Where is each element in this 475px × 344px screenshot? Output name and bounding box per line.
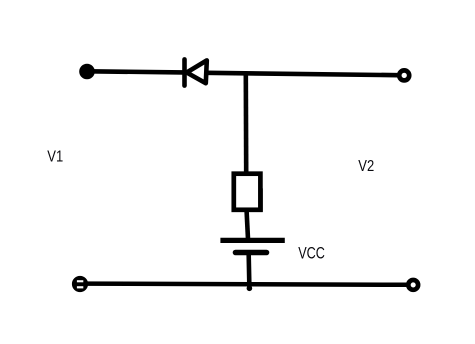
wire top-left segment: [88, 71, 183, 72]
wire vertical from top junction to resistor: [244, 73, 249, 174]
wire resistor to battery: [247, 211, 248, 239]
wire bottom rail: [82, 284, 407, 285]
node terminal bottom-left (dot with slits): [72, 276, 88, 292]
battery VCC positive plate (long): [220, 238, 284, 243]
diode D1: [185, 59, 207, 85]
svg-text:V1: V1: [47, 149, 63, 166]
svg-text:VCC: VCC: [298, 243, 325, 262]
wire top-right segment: [206, 73, 398, 75]
node terminal top-left (filled dot): [79, 64, 95, 80]
svg-text:V2: V2: [358, 158, 374, 175]
node terminal bottom-right (open circle): [408, 280, 418, 290]
resistor R1 (box): [234, 174, 263, 212]
node terminal top-right (open circle): [399, 70, 409, 80]
battery VCC negative plate (short): [236, 250, 267, 256]
wire battery to bottom rail: [246, 255, 251, 289]
junction bump below bottom rail: [247, 286, 253, 292]
